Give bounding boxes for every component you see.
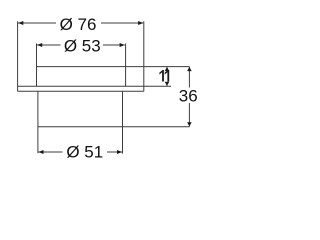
svg-text:36: 36 (179, 86, 198, 105)
svg-text:Ø 53: Ø 53 (64, 37, 101, 56)
svg-text:Ø 76: Ø 76 (60, 15, 97, 34)
svg-text:Ø 51: Ø 51 (66, 142, 103, 161)
